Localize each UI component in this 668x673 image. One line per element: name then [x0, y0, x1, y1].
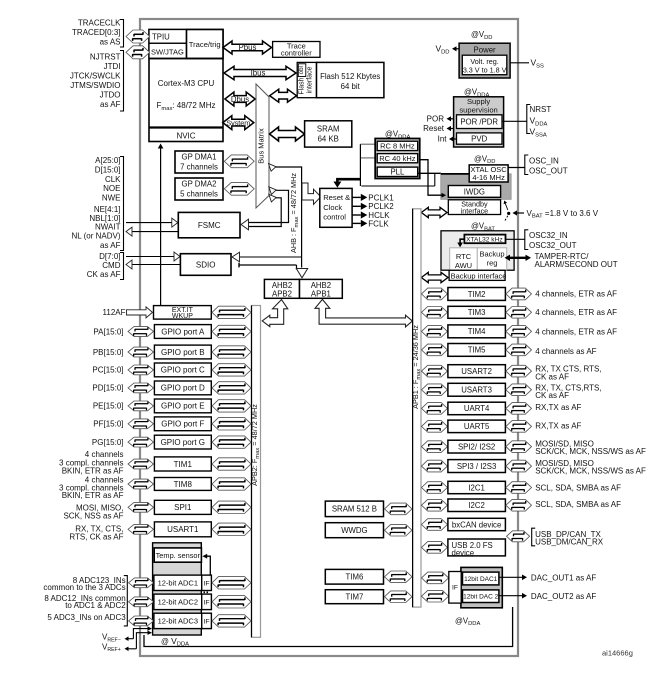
- svg-text:BKIN, ETR as AF: BKIN, ETR as AF: [62, 491, 124, 500]
- svg-text:PD[15:0]: PD[15:0]: [92, 384, 123, 393]
- gp dma1 block: [175, 151, 223, 173]
- svg-text:NOE: NOE: [103, 184, 120, 193]
- vbat label domain: [471, 222, 495, 233]
- svg-text:5 channels: 5 channels: [180, 190, 218, 199]
- temp sensor block: [154, 548, 201, 562]
- svg-text:GPIO port D: GPIO port D: [161, 384, 205, 393]
- svg-text:PG[15:0]: PG[15:0]: [92, 438, 124, 447]
- spi1 labels: [63, 504, 123, 521]
- svg-text:SRAM: SRAM: [317, 125, 340, 134]
- svg-text:SW/JTAG: SW/JTAG: [151, 47, 184, 56]
- svg-text:DAC_OUT1 as AF: DAC_OUT1 as AF: [531, 574, 596, 583]
- svg-text:TRACECLK: TRACECLK: [78, 19, 121, 28]
- GPIO port F row: [93, 417, 251, 431]
- vdd input arrow: [435, 44, 459, 56]
- GPIO port G row: [92, 435, 251, 449]
- trace double arrows: [126, 30, 150, 43]
- svg-text:GP DMA2: GP DMA2: [182, 180, 217, 189]
- svg-text:TIM7: TIM7: [346, 593, 364, 602]
- I2C1 block: [422, 481, 532, 493]
- backup interface block: [449, 270, 506, 280]
- flash interface block: [297, 62, 316, 97]
- gp dma2 block: [175, 178, 223, 200]
- svg-text:64 bit: 64 bit: [341, 82, 361, 91]
- usart1 row: [128, 522, 251, 537]
- figure reference: [602, 649, 633, 658]
- svg-text:12-bit ADC3: 12-bit ADC3: [158, 617, 198, 626]
- svg-text:PLL: PLL: [390, 168, 405, 177]
- exti wkup block: [154, 306, 212, 321]
- svg-text:TIM2: TIM2: [468, 290, 486, 299]
- reset and clock control block: [320, 188, 352, 227]
- TIM7 block: [325, 590, 412, 604]
- vdda label bottom left: [161, 636, 189, 648]
- SPI2/ I2S2 block: [422, 440, 532, 453]
- svg-text:I2C1: I2C1: [468, 483, 484, 492]
- svg-text:JTCK/SWCLK: JTCK/SWCLK: [70, 72, 121, 81]
- GPIO port C row: [92, 363, 251, 377]
- svg-text:IF: IF: [203, 599, 209, 606]
- svg-text:USART1: USART1: [167, 525, 199, 534]
- standby interface arrow: [421, 207, 447, 217]
- svg-text:common to the 3 ADCs: common to the 3 ADCs: [43, 583, 125, 592]
- vdda bottom wire: [144, 607, 513, 647]
- svg-text:Flash: Flash: [299, 77, 306, 94]
- svg-text:Flash 512 Kbytes: Flash 512 Kbytes: [320, 72, 380, 81]
- svg-text:Pbus: Pbus: [239, 43, 257, 52]
- bus matrix: [256, 84, 269, 208]
- exti to apb2 arrow: [212, 306, 251, 318]
- svg-text:NJTRST: NJTRST: [90, 53, 121, 62]
- svg-text:device: device: [452, 548, 475, 557]
- svg-text:ai14666g: ai14666g: [602, 649, 633, 658]
- right peripheral pin labels: [535, 290, 646, 510]
- svg-text:interface: interface: [461, 206, 489, 215]
- svg-text:Backup interface: Backup interface: [451, 271, 507, 280]
- svg-text:Cortex-M3 CPU: Cortex-M3 CPU: [158, 79, 215, 88]
- svg-text:SDIO: SDIO: [196, 260, 216, 269]
- svg-text:3.3 V to 1.8 V: 3.3 V to 1.8 V: [463, 66, 507, 75]
- trace controller block: [273, 41, 320, 57]
- osc32 wires: [505, 230, 577, 250]
- svg-text:IF: IF: [203, 618, 209, 625]
- svg-text:AWU: AWU: [455, 261, 472, 270]
- bus matrix to flash interface arrow: [270, 89, 297, 102]
- tim1 labels: [59, 450, 124, 476]
- gp dma2 arrow: [224, 182, 254, 195]
- svg-text:interface: interface: [307, 66, 314, 93]
- svg-text:4 channels as AF: 4 channels as AF: [535, 347, 596, 356]
- tim8 labels: [59, 475, 124, 500]
- svg-text:D[15:0]: D[15:0]: [95, 165, 121, 174]
- svg-text:as AF: as AF: [100, 100, 121, 109]
- svg-text:I2C2: I2C2: [468, 501, 484, 510]
- por reset int arrows: [423, 114, 456, 143]
- svg-text:POR: POR: [427, 114, 445, 123]
- svg-text:GPIO port B: GPIO port B: [161, 348, 205, 357]
- adc if dotted divider: [204, 591, 210, 593]
- apb2 bridge elbow arrow: [262, 300, 288, 327]
- xtal32 to rtc arrow: [457, 239, 464, 247]
- svg-text:Reset: Reset: [423, 124, 445, 133]
- svg-text:D[7:0]: D[7:0]: [99, 252, 120, 261]
- svg-text:as AS: as AS: [100, 38, 121, 47]
- osc_in osc_out wires: [508, 155, 568, 175]
- svg-text:PB[15:0]: PB[15:0]: [93, 348, 124, 357]
- svg-text:as AF: as AF: [100, 241, 121, 250]
- svg-text:JTDO: JTDO: [100, 90, 121, 99]
- vref labels and wires: [102, 626, 152, 653]
- svg-text:PVD: PVD: [471, 134, 487, 143]
- svg-text:TIM5: TIM5: [468, 346, 486, 355]
- vdda label for rc oscillators: [385, 130, 410, 141]
- dac group block: [422, 567, 503, 607]
- gp dma1 arrow: [224, 155, 254, 168]
- svg-text:RX,TX as AF: RX,TX as AF: [535, 422, 581, 431]
- 12-bit ADC3 block: [129, 613, 252, 628]
- svg-text:5 ADC3_INs on ADC3: 5 ADC3_INs on ADC3: [47, 613, 126, 622]
- svg-text:WKUP: WKUP: [172, 313, 193, 320]
- svg-text:NWE: NWE: [102, 193, 121, 202]
- svg-text:obl: obl: [298, 66, 305, 74]
- svg-text:USART3: USART3: [461, 386, 492, 395]
- flash memory block: [317, 62, 384, 97]
- bxcan block: [422, 518, 506, 530]
- svg-text:TIM3: TIM3: [468, 308, 486, 317]
- svg-text:to ADC1 & ADC2: to ADC1 & ADC2: [65, 601, 126, 610]
- svg-text:APB2: APB2: [272, 290, 292, 299]
- svg-text:4 channels: 4 channels: [85, 450, 124, 459]
- vdd label power: [471, 30, 493, 41]
- svg-text:WWDG: WWDG: [341, 526, 367, 535]
- svg-text:supervision: supervision: [459, 105, 497, 114]
- svg-text:12-bit ADC1: 12-bit ADC1: [158, 579, 198, 588]
- sdio pin wires: [126, 252, 180, 269]
- vdd domain gray region: [441, 174, 511, 199]
- svg-text:4-16 MHz: 4-16 MHz: [472, 173, 505, 182]
- svg-text:PA[15:0]: PA[15:0]: [93, 327, 123, 336]
- tim1 row: [128, 457, 251, 471]
- backup reg block: [477, 248, 506, 270]
- WWDG block: [325, 523, 412, 538]
- svg-text:bxCAN device: bxCAN device: [452, 520, 501, 529]
- sram arrow: [270, 127, 305, 141]
- svg-text:GPIO port G: GPIO port G: [161, 438, 205, 447]
- I2C2 block: [422, 499, 532, 512]
- svg-text:OSC32_IN: OSC32_IN: [529, 231, 568, 240]
- nrst vdda vssa wires: [502, 105, 551, 139]
- svg-text:Backup: Backup: [479, 250, 504, 259]
- svg-text:4 channels, ETR as AF: 4 channels, ETR as AF: [535, 308, 617, 317]
- power block: [459, 43, 510, 78]
- TIM4 block: [422, 325, 532, 338]
- svg-text:NVIC: NVIC: [176, 132, 195, 141]
- adc pin labels: [43, 576, 127, 626]
- svg-text:RTC: RTC: [456, 252, 472, 261]
- svg-text:GPIO port A: GPIO port A: [161, 327, 205, 336]
- svg-text:POR /PDR: POR /PDR: [460, 117, 498, 126]
- svg-text:RX,TX as AF: RX,TX as AF: [535, 403, 581, 412]
- svg-text:System: System: [226, 118, 250, 127]
- backup interface arrow: [421, 272, 448, 282]
- svg-text:Volt. reg.: Volt. reg.: [470, 57, 498, 66]
- vdda label bottom right: [455, 616, 480, 627]
- GPIO port A row: [93, 325, 251, 339]
- cortex-m3 cpu block: [149, 30, 223, 142]
- svg-text:NWAIT: NWAIT: [95, 223, 121, 232]
- sdio pin labels: [87, 252, 124, 280]
- svg-text:OSC32_OUT: OSC32_OUT: [529, 241, 577, 250]
- system bus arrow: [223, 116, 254, 130]
- svg-text:JTMS/SWDIO: JTMS/SWDIO: [70, 81, 120, 90]
- svg-text:reg: reg: [487, 259, 498, 268]
- svg-text:TIM6: TIM6: [346, 573, 364, 582]
- svg-text:SCL, SDA, SMBA as AF: SCL, SDA, SMBA as AF: [535, 500, 621, 509]
- TIM5 block: [422, 344, 532, 357]
- svg-text:Ibus: Ibus: [251, 69, 266, 78]
- svg-text:Power: Power: [474, 45, 497, 54]
- svg-text:USB_DM/CAN_RX: USB_DM/CAN_RX: [535, 537, 604, 546]
- pll to xtal wire: [418, 172, 441, 174]
- usart1 labels: [69, 525, 123, 542]
- trace pin labels: [72, 19, 123, 48]
- svg-text:TIM8: TIM8: [174, 480, 193, 489]
- ahb bus wire: [269, 164, 302, 268]
- exti to nvic wire: [158, 144, 164, 306]
- dbus arrow: [225, 92, 255, 106]
- svg-text:PF[15:0]: PF[15:0]: [93, 420, 123, 429]
- svg-text:64 KB: 64 KB: [318, 135, 339, 144]
- 12-bit ADC1 block: [129, 575, 252, 590]
- svg-text:A[25:0]: A[25:0]: [95, 156, 120, 165]
- svg-text:4 channels, ETR as AF: 4 channels, ETR as AF: [535, 290, 617, 299]
- rc oscillator group: [375, 139, 420, 179]
- ahb to rcc elbow arrow: [302, 183, 321, 204]
- temp sensor wire: [202, 554, 210, 575]
- svg-text:ALARM/SECOND OUT: ALARM/SECOND OUT: [535, 260, 618, 269]
- svg-text:OSC_OUT: OSC_OUT: [529, 166, 568, 175]
- svg-text:NL (or NADV): NL (or NADV): [71, 232, 120, 241]
- svg-text:UART5: UART5: [464, 422, 490, 431]
- svg-text:GPIO port F: GPIO port F: [161, 420, 204, 429]
- svg-text:RC 40 kHz: RC 40 kHz: [379, 154, 416, 163]
- svg-text:JTDI: JTDI: [104, 62, 121, 71]
- spi1 row: [128, 500, 251, 514]
- svg-text:controller: controller: [281, 48, 312, 57]
- apb1 bus band: [411, 209, 422, 607]
- svg-text:Dbus: Dbus: [231, 95, 249, 104]
- svg-text:SPI3 / I2S3: SPI3 / I2S3: [457, 462, 496, 471]
- svg-text:TRACED[0:3]: TRACED[0:3]: [72, 28, 120, 37]
- 112af label and arrow: [103, 307, 153, 318]
- adc container: [153, 543, 202, 635]
- svg-text:SCK/CK, MCK, NSS/WS as AF: SCK/CK, MCK, NSS/WS as AF: [535, 447, 646, 456]
- svg-text:FCLK: FCLK: [368, 219, 389, 228]
- svg-text:BKIN, ETR as AF: BKIN, ETR as AF: [62, 466, 124, 475]
- pbus arrow: [223, 41, 272, 54]
- GPIO port D row: [92, 381, 251, 395]
- supply supervision block: [454, 97, 504, 147]
- sdio block: [180, 254, 231, 276]
- TIM2 block: [422, 288, 532, 301]
- ahb2-apb2 bridge block: [264, 279, 299, 298]
- svg-text:CMD: CMD: [102, 261, 120, 270]
- GPIO port E row: [93, 399, 251, 413]
- svg-text:GPIO port E: GPIO port E: [161, 402, 205, 411]
- svg-text:TPIU: TPIU: [152, 33, 170, 42]
- svg-text:CK as AF: CK as AF: [535, 372, 569, 381]
- svg-text:GP DMA1: GP DMA1: [182, 153, 217, 162]
- UART5 block: [422, 420, 532, 433]
- svg-text:UART4: UART4: [464, 404, 490, 413]
- fsmc pin labels: [71, 156, 123, 251]
- standby interface block: [448, 199, 500, 215]
- jtag double arrows: [126, 46, 150, 59]
- apb2 bus band: [250, 306, 261, 638]
- apb1 bridge elbow arrow: [315, 299, 412, 327]
- clock output arrows: [352, 193, 394, 228]
- svg-text:CK as AF: CK as AF: [87, 270, 121, 279]
- svg-text:TIM1: TIM1: [174, 460, 193, 469]
- svg-text:USART2: USART2: [461, 367, 492, 376]
- sram block: [305, 121, 352, 147]
- TIM3 block: [422, 306, 532, 318]
- vdda label supply: [464, 88, 489, 99]
- dac output arrows: [499, 574, 596, 601]
- svg-text:Clock: Clock: [323, 203, 342, 212]
- ahb to bridge wire: [239, 263, 308, 278]
- svg-text:12bit DAC 2: 12bit DAC 2: [463, 594, 498, 601]
- 12-bit ADC2 block: [129, 594, 252, 610]
- svg-text:TIM4: TIM4: [468, 327, 486, 336]
- svg-text:Temp. sensor: Temp. sensor: [156, 551, 201, 560]
- svg-text:OSC_IN: OSC_IN: [529, 156, 559, 165]
- tamper arrow: [505, 252, 618, 269]
- fsmc to bus matrix wires: [241, 187, 289, 230]
- svg-text:SRAM 512 B: SRAM 512 B: [332, 505, 377, 514]
- svg-text:SCL, SDA, SMBA as AF: SCL, SDA, SMBA as AF: [535, 483, 621, 492]
- svg-text:DAC_OUT2 as AF: DAC_OUT2 as AF: [531, 592, 596, 601]
- ibus arrow: [224, 66, 296, 79]
- svg-text:SCK/CK, MCK, NSS/WS as AF: SCK/CK, MCK, NSS/WS as AF: [535, 467, 646, 476]
- svg-text:SCK, NSS as AF: SCK, NSS as AF: [63, 511, 123, 520]
- svg-text:XTAL32 kHz: XTAL32 kHz: [466, 236, 503, 243]
- svg-text:Reset &: Reset &: [323, 193, 350, 202]
- chip outer frame: [140, 19, 518, 656]
- UART4 block: [422, 402, 532, 415]
- TIM6 block: [325, 569, 412, 584]
- ahb2-apb1 bridge block: [300, 279, 343, 298]
- xtal32 block: [464, 235, 505, 244]
- SRAM 512 B block: [325, 501, 412, 516]
- svg-text:APB1: APB1: [311, 290, 331, 299]
- USART2 block: [422, 365, 532, 378]
- usb block: [422, 539, 506, 557]
- svg-text:FSMC: FSMC: [198, 221, 221, 230]
- svg-text:PE[15:0]: PE[15:0]: [93, 402, 124, 411]
- svg-text:SPI2/ I2S2: SPI2/ I2S2: [458, 442, 495, 451]
- fsmc block: [178, 212, 240, 237]
- svg-text:IF: IF: [203, 580, 209, 587]
- svg-text:Trace/trig: Trace/trig: [189, 40, 221, 49]
- xtal osc block: [469, 165, 508, 182]
- jtag pin labels: [70, 51, 124, 112]
- svg-text:Int: Int: [438, 135, 448, 144]
- iwdg block: [448, 186, 500, 198]
- svg-text:control: control: [323, 213, 346, 222]
- vss wire: [510, 58, 544, 70]
- svg-text:GPIO port C: GPIO port C: [161, 366, 205, 375]
- svg-text:PC[15:0]: PC[15:0]: [92, 366, 123, 375]
- svg-text:RTS, CK as AF: RTS, CK as AF: [69, 532, 123, 541]
- tim8 row: [128, 478, 251, 491]
- svg-text:SPI1: SPI1: [174, 503, 192, 512]
- vdd label xtal: [474, 154, 496, 165]
- svg-text:IF: IF: [452, 585, 458, 592]
- svg-text:RC 8 MHz: RC 8 MHz: [380, 142, 415, 151]
- svg-text:NRST: NRST: [530, 105, 552, 114]
- svg-text:IWDG: IWDG: [464, 187, 485, 196]
- rc40 to iwdg wire: [419, 160, 446, 198]
- rtc awu block: [450, 248, 478, 270]
- USART3 block: [422, 383, 532, 396]
- vbat domain region: [441, 231, 514, 270]
- svg-text:NE[4:1]: NE[4:1]: [94, 205, 121, 214]
- svg-text:4 channels, ETR as AF: 4 channels, ETR as AF: [535, 327, 617, 336]
- GPIO port B row: [93, 345, 251, 359]
- SPI3 / I2S3 block: [422, 460, 532, 473]
- vbat wire and label: [504, 201, 599, 221]
- svg-text:Bus Matrix: Bus Matrix: [257, 128, 266, 164]
- svg-text:7 channels: 7 channels: [180, 163, 218, 172]
- svg-text:12bit DAC1: 12bit DAC1: [464, 576, 498, 583]
- fsmc pin wires: [126, 218, 178, 236]
- svg-text:PCLK2: PCLK2: [368, 202, 394, 211]
- sdio to ahb wire: [232, 252, 302, 262]
- usb can shared arrow: [507, 528, 604, 546]
- svg-text:CLK: CLK: [105, 175, 121, 184]
- svg-text:12-bit ADC2: 12-bit ADC2: [158, 598, 198, 607]
- svg-text:CK as AF: CK as AF: [535, 391, 569, 400]
- clock source wires: [333, 144, 434, 187]
- svg-text:PCLK1: PCLK1: [368, 193, 394, 202]
- svg-text:112AF: 112AF: [103, 308, 126, 317]
